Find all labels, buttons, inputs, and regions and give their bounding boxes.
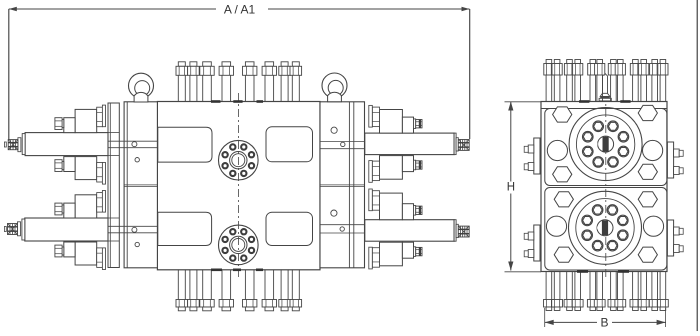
right end block screw c2: [341, 142, 345, 146]
right pilot block above rod1: [380, 110, 403, 134]
right end block stem band rod1: [320, 141, 365, 143]
left rod 2 cylinder: [25, 218, 108, 241]
top stud x269.3: [264, 75, 266, 101]
dimension B extension line right: [665, 308, 667, 327]
dimension H extension line top: [505, 101, 542, 103]
side view top edge heavy segment 1: [579, 100, 589, 103]
top stud x193.4: [189, 75, 191, 101]
upper left pocket: [158, 127, 212, 162]
svg-text:B: B: [600, 316, 608, 330]
left pilot block B4 below rod2: [75, 242, 97, 265]
left end block mid band: [124, 184, 157, 186]
side view lower section plate: [545, 188, 667, 271]
left end block screw b2: [135, 158, 139, 162]
left end block screw b1: [132, 142, 137, 147]
right end block screw c3: [331, 210, 337, 216]
left rod 1 tip end: [4, 142, 6, 147]
left rod 1 cylinder: [25, 133, 108, 156]
right rod 2 tip step: [456, 224, 458, 237]
bottom stud x249.7: [244, 270, 246, 300]
left end block stem band rod2: [108, 225, 157, 227]
left end block screw b3: [132, 227, 137, 232]
side view left port block upper: [534, 138, 540, 174]
left rod 1 cap: [22, 134, 25, 155]
bottom edge heavy segment 3: [256, 268, 263, 271]
side view top edge heavy segment 2: [620, 100, 630, 103]
left rod 1 threaded tip: [8, 140, 18, 150]
left rod 2 threaded tip: [8, 224, 18, 235]
right rod 1 cap: [454, 133, 456, 155]
left rod 2 cap: [22, 219, 25, 240]
right end block inner line 1: [348, 102, 350, 268]
right rod 2 cylinder: [365, 220, 454, 242]
right pilot block above rod2: [380, 193, 403, 220]
left cap column: [108, 103, 119, 268]
eye bolt left: [129, 73, 154, 98]
left rod 2 tip step: [18, 222, 21, 236]
bottom stud x226.3: [221, 270, 223, 300]
dimension line A/A1: [9, 8, 216, 10]
left pilot block B3 above rod2: [75, 195, 97, 218]
bottom edge heavy segment 1: [211, 268, 222, 271]
label H: [505, 182, 518, 194]
page border line right: [696, 0, 698, 331]
eye bolt right: [322, 73, 347, 98]
top edge heavy segment 3: [257, 100, 264, 103]
dimension H extension line bottom: [505, 271, 542, 273]
lower right pocket: [266, 212, 313, 245]
side view bottom studs: [545, 272, 547, 300]
svg-text:A / A1: A / A1: [224, 2, 256, 16]
front view main body: [157, 102, 320, 270]
top edge heavy segment 2: [233, 100, 242, 103]
right pilot block below rod1: [380, 156, 403, 180]
side view through hole upper right: [643, 140, 663, 160]
dimension B extension line left: [544, 308, 546, 327]
right end block mid band: [320, 184, 365, 186]
right rod 2 threaded tip: [458, 226, 469, 237]
side view top studs: [545, 75, 547, 102]
top stud x284.6: [280, 75, 282, 101]
side view corner hex bolts upper section: [553, 107, 572, 122]
right end block screw c4: [340, 227, 344, 231]
side view left port block lower: [534, 225, 540, 261]
upper right pocket: [266, 127, 313, 162]
front view right end block: [320, 102, 365, 268]
flange F1 with bolt circle: [219, 140, 259, 180]
bottom stud x295.8: [291, 270, 293, 300]
side view corner hex bolts lower section: [554, 192, 573, 207]
top stud x295.8: [291, 75, 293, 101]
right rod 2 cap: [454, 220, 456, 242]
left rod 2 tip end: [4, 227, 6, 232]
top stud x181.8: [177, 75, 179, 101]
left end block screw b4: [135, 242, 139, 246]
right end block stem band rod2: [320, 224, 365, 226]
front view dashed centerline: [238, 93, 240, 279]
top stud x207.0: [202, 75, 204, 101]
side view bottom edge heavy segment 2: [618, 270, 629, 273]
bottom stud x193.4: [189, 270, 191, 300]
right rod 1 cylinder: [365, 133, 454, 155]
side view vertical centerline: [605, 93, 607, 279]
left end block inner line: [126, 102, 128, 268]
side view upper boss circle: [569, 108, 642, 181]
left pilot block B2 below rod1: [75, 157, 97, 180]
side view lower boss circle: [569, 191, 642, 264]
side view upper section plate: [545, 109, 667, 186]
svg-text:H: H: [507, 182, 515, 194]
right rod 1 tip step: [456, 138, 458, 151]
extension line right of A/A1: [469, 9, 471, 139]
top edge heavy segment 1: [211, 100, 221, 103]
left pilot block B1 above rod1: [75, 109, 97, 132]
lower left pocket: [158, 212, 212, 245]
side view upper nut ring: [618, 146, 629, 157]
bottom stud x284.6: [280, 270, 282, 300]
right pilot block below rod2: [380, 242, 403, 266]
top stud x249.7: [244, 75, 246, 101]
bottom stud x181.8: [177, 270, 179, 300]
top stud x226.3: [221, 75, 223, 101]
side view through hole lower left: [546, 216, 566, 236]
left cap column inner line: [109, 103, 111, 268]
dimension line B: [545, 321, 597, 323]
side view right port block lower: [667, 220, 673, 256]
side view through hole lower right: [643, 216, 663, 236]
right rod 1 threaded tip: [458, 140, 469, 151]
side view bottom edge heavy segment 1: [577, 270, 588, 273]
left rod 1 tip step: [18, 138, 21, 152]
cap column rod1 flange lines: [108, 132, 119, 134]
left end block stem band rod1: [108, 140, 157, 142]
side view lower nut ring: [618, 230, 629, 241]
bottom edge heavy segment 2: [233, 268, 241, 271]
side view top plate line: [541, 108, 667, 110]
flange F2 with bolt circle: [219, 225, 259, 265]
cap column rod2 flange lines: [108, 217, 119, 219]
side view body outline: [541, 102, 667, 272]
dimension line H: [510, 102, 512, 271]
bottom stud x207.0: [202, 270, 204, 300]
extension line left of A/A1: [8, 9, 10, 140]
right end block inner line 2: [353, 102, 355, 268]
side view center breather pin: [603, 73, 608, 93]
right end block screw c1: [331, 127, 337, 133]
bottom stud x269.3: [264, 270, 266, 300]
side view right port block upper: [667, 142, 673, 178]
side view through hole upper left: [547, 140, 567, 160]
front view left end block: [124, 102, 157, 268]
